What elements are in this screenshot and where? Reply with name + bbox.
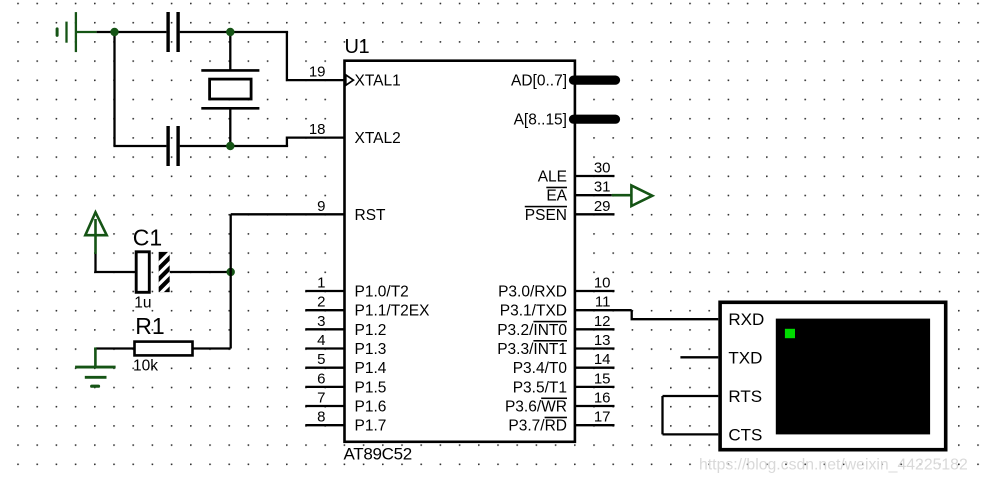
svg-text:18: 18 [309, 121, 326, 138]
svg-text:AT89C52: AT89C52 [344, 445, 412, 464]
svg-text:XTAL1: XTAL1 [355, 73, 401, 90]
svg-text:P3.6/WR: P3.6/WR [505, 399, 567, 416]
ground (sideways, top-left) [57, 12, 97, 52]
svg-text:P3.4/T0: P3.4/T0 [513, 360, 568, 377]
svg-text:31: 31 [594, 179, 611, 196]
wire TXD stub [680, 356, 718, 358]
wire bottom rail right [180, 145, 288, 147]
svg-text:P1.5: P1.5 [355, 379, 387, 396]
bus AD[0..7] [574, 75, 616, 84]
svg-text:C1: C1 [133, 225, 162, 251]
capacitor C1 [136, 249, 173, 299]
wire VCC to C1 [94, 271, 136, 273]
svg-text:P3.0/RXD: P3.0/RXD [498, 284, 567, 301]
svg-text:6: 6 [317, 370, 325, 387]
capacitor top load cap [166, 12, 179, 52]
capacitor bottom load cap [166, 126, 179, 166]
EA input arrow [631, 186, 652, 207]
pin stub 10 [575, 290, 615, 292]
svg-text:P3.3/INT1: P3.3/INT1 [497, 341, 567, 358]
pin stub 2 [305, 309, 344, 311]
pin stub 13 [575, 347, 615, 349]
node junction crystal top [226, 28, 234, 36]
svg-text:15: 15 [594, 370, 611, 387]
svg-text:12: 12 [594, 313, 611, 330]
wire C1 to junction [170, 271, 231, 273]
svg-text:10k: 10k [133, 358, 158, 375]
svg-text:A[8..15]: A[8..15] [514, 112, 567, 129]
wire TXD to terminal [632, 310, 719, 319]
svg-text:P3.5/T1: P3.5/T1 [513, 379, 567, 396]
svg-text:17: 17 [594, 409, 611, 426]
svg-text:RTS: RTS [728, 387, 762, 406]
resistor R1 [96, 342, 231, 356]
pin stub 12 [575, 328, 615, 330]
svg-text:7: 7 [317, 390, 325, 407]
pin stub 14 [575, 367, 615, 369]
svg-text:XTAL2: XTAL2 [355, 130, 401, 147]
pin clock arrow XTAL1 [346, 75, 354, 85]
svg-text:ALE: ALE [538, 169, 567, 186]
svg-text:RXD: RXD [728, 310, 764, 329]
wire left drop [113, 32, 115, 146]
pin stub 5 [305, 367, 344, 369]
svg-text:P3.1/TXD: P3.1/TXD [500, 303, 567, 320]
wire RTS stub [663, 395, 719, 397]
terminal screen [776, 319, 930, 435]
pin stub 17 [575, 424, 615, 426]
wire top rail left [97, 31, 167, 33]
ground (bottom-left) [75, 347, 116, 386]
svg-text:19: 19 [309, 64, 326, 81]
svg-text:P1.4: P1.4 [355, 360, 387, 377]
svg-text:P3.7/RD: P3.7/RD [508, 418, 567, 435]
wire jog down to XTAL1 [287, 32, 345, 80]
svg-text:16: 16 [594, 390, 611, 407]
terminal virtual terminal box [720, 302, 946, 449]
wire RTS-CTS loop [661, 396, 663, 434]
terminal cursor [785, 329, 795, 338]
svg-text:29: 29 [594, 198, 611, 215]
svg-text:8: 8 [317, 409, 325, 426]
svg-text:RST: RST [355, 207, 387, 224]
pin stub 3 [305, 328, 344, 330]
pin stub 6 [305, 386, 344, 388]
svg-text:3: 3 [317, 313, 325, 330]
svg-text:TXD: TXD [728, 348, 762, 367]
node junction crystal bottom [226, 142, 234, 150]
svg-text:P1.6: P1.6 [355, 399, 387, 416]
wire RST vertical [230, 214, 232, 348]
power VCC arrow [85, 212, 106, 273]
crystal X1 [201, 32, 259, 146]
wire top rail right [180, 31, 288, 33]
svg-text:4: 4 [317, 332, 325, 349]
wire jog up to XTAL2 [287, 138, 345, 146]
pin stub 4 [305, 347, 344, 349]
svg-text:P1.0/T2: P1.0/T2 [355, 284, 409, 301]
IC U1 AT89C52 [345, 61, 575, 442]
svg-text:P1.1/T2EX: P1.1/T2EX [355, 303, 431, 320]
svg-text:1: 1 [317, 275, 325, 292]
wire CTS stub [663, 433, 719, 435]
wire RST to pin 9 [231, 213, 345, 215]
pin stub 16 [575, 405, 615, 407]
svg-text:R1: R1 [135, 313, 164, 339]
svg-text:CTS: CTS [728, 425, 762, 444]
svg-text:13: 13 [594, 332, 611, 349]
svg-text:9: 9 [317, 198, 325, 215]
wire EA green [612, 194, 632, 197]
svg-text:https://blog.csdn.net/weixin_4: https://blog.csdn.net/weixin_44225182 [699, 457, 968, 474]
svg-text:P3.2/INT0: P3.2/INT0 [497, 322, 567, 339]
pin stub 8 [305, 424, 344, 426]
svg-text:AD[0..7]: AD[0..7] [511, 73, 567, 90]
pin stub 29 [575, 213, 615, 215]
wire bottom rail left [113, 145, 166, 147]
svg-text:14: 14 [594, 351, 611, 368]
svg-text:30: 30 [594, 160, 611, 177]
node junction top-left [110, 28, 118, 36]
pin stub 30 [575, 175, 615, 177]
svg-text:2: 2 [317, 294, 325, 311]
pin stub 7 [305, 405, 344, 407]
pin stub 15 [575, 386, 615, 388]
svg-text:EA: EA [546, 188, 567, 205]
bus A[8..15] [574, 115, 616, 124]
pin stub 11 [575, 309, 632, 311]
pin stub 1 [305, 290, 344, 292]
svg-text:P1.7: P1.7 [355, 418, 387, 435]
svg-text:5: 5 [317, 351, 325, 368]
svg-text:11: 11 [595, 294, 611, 311]
svg-text:PSEN: PSEN [525, 207, 567, 224]
pin stub 31 [575, 194, 612, 196]
node junction RST [227, 268, 235, 276]
svg-text:P1.3: P1.3 [355, 341, 387, 358]
svg-text:1u: 1u [134, 295, 151, 312]
svg-text:U1: U1 [345, 36, 370, 58]
svg-text:P1.2: P1.2 [355, 322, 387, 339]
svg-text:10: 10 [594, 275, 611, 292]
